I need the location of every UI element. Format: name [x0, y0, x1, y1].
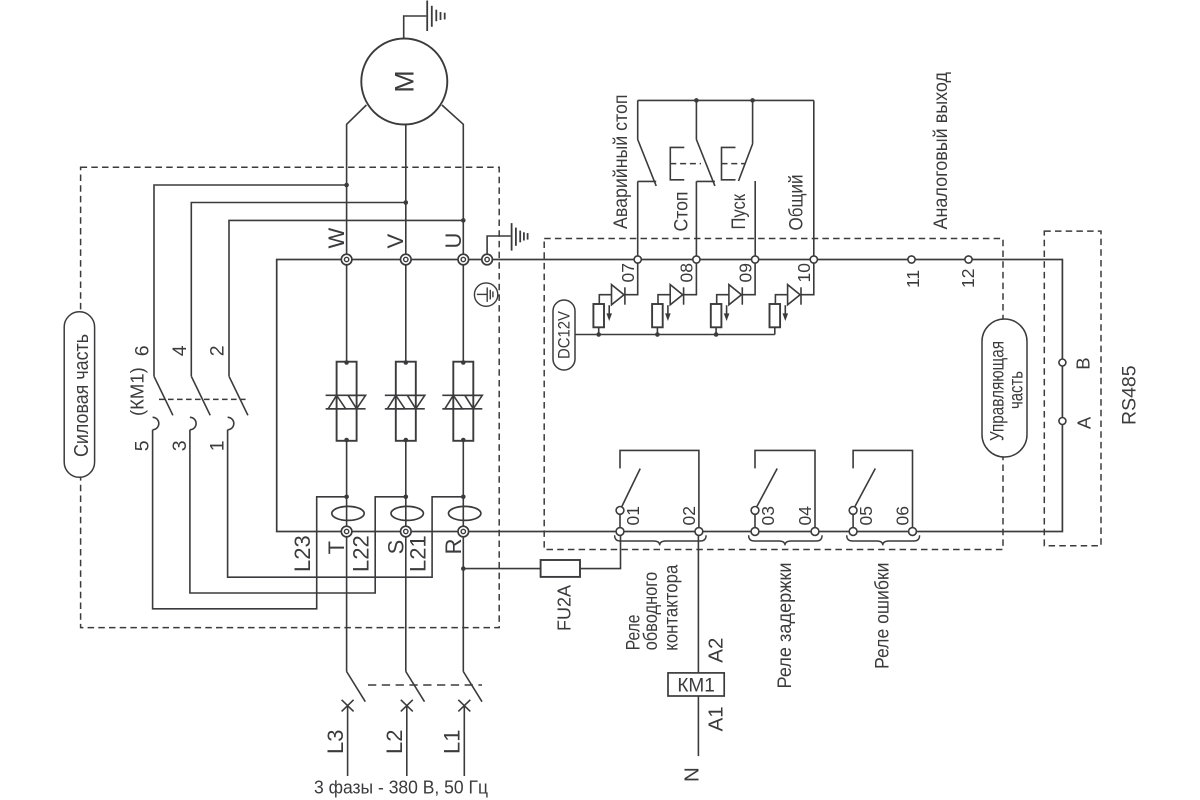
- terminal 01: [616, 528, 624, 536]
- svg-text:T: T: [324, 541, 349, 554]
- input channel 09: [711, 263, 756, 337]
- device body outline: [277, 260, 1063, 532]
- circuit breaker pole L2: [401, 532, 425, 777]
- svg-text:A: A: [1073, 416, 1094, 429]
- svg-text:Силовая часть: Силовая часть: [70, 334, 93, 457]
- terminal 10: [810, 256, 817, 263]
- svg-text:Управляющая: Управляющая: [988, 341, 1009, 441]
- svg-text:R: R: [441, 539, 466, 555]
- svg-text:A1: A1: [705, 706, 728, 731]
- wire: U terminal to thyristor: [462, 264, 464, 362]
- svg-text:L21: L21: [405, 535, 430, 572]
- terminal S: [383, 526, 411, 554]
- mechanical link of breaker: [368, 684, 482, 686]
- circuit breaker pole L1: [458, 532, 482, 777]
- wire: thyristor to S terminal: [405, 441, 407, 527]
- pushbutton: Аварийный стоп (NC): [611, 95, 656, 257]
- relay contact 01-02: [615, 450, 707, 650]
- svg-text:10: 10: [794, 263, 814, 283]
- terminal 09: [752, 256, 759, 263]
- ground (top, motor): [427, 1, 445, 32]
- svg-text:часть: часть: [1007, 371, 1028, 409]
- svg-text:L23: L23: [290, 535, 315, 572]
- stadium label: Силовая часть: [64, 312, 94, 478]
- terminal A: [1059, 416, 1094, 429]
- contactor KM1 pole A top wire: [154, 185, 347, 376]
- svg-text:02: 02: [679, 506, 699, 525]
- svg-text:09: 09: [735, 263, 755, 282]
- svg-text:12: 12: [958, 269, 978, 288]
- svg-text:КМ1: КМ1: [677, 674, 715, 696]
- svg-text:01: 01: [623, 506, 643, 525]
- terminal 05: [849, 528, 857, 536]
- svg-text:(КМ1): (КМ1): [127, 367, 148, 416]
- terminal 04: [811, 528, 819, 536]
- svg-text:M: M: [390, 70, 420, 93]
- svg-text:Пуск: Пуск: [729, 193, 750, 229]
- current transformer on T: [332, 506, 364, 520]
- wire: thyristor to R terminal: [462, 441, 464, 527]
- input channel 07: [593, 263, 638, 337]
- svg-text:2: 2: [207, 345, 229, 356]
- svg-text:Реле ошибки: Реле ошибки: [873, 563, 894, 670]
- control section dashed box: [544, 239, 1003, 550]
- input channel 10: [770, 263, 815, 335]
- svg-text:L1: L1: [440, 730, 465, 754]
- fuse FU2A: [461, 535, 621, 631]
- svg-text:V: V: [383, 234, 408, 249]
- circuit breaker pole L3: [342, 532, 366, 777]
- pushbutton: Пуск (NO): [722, 100, 756, 256]
- wire: motor to ground: [404, 16, 427, 39]
- svg-text:3 фазы - 380 В, 50 Гц: 3 фазы - 380 В, 50 Гц: [314, 777, 488, 798]
- wire: W terminal to thyristor: [346, 264, 348, 362]
- terminal 11: [903, 256, 923, 288]
- ground (PE terminal): [487, 223, 527, 254]
- svg-text:4: 4: [169, 345, 191, 356]
- terminal R: [441, 526, 469, 554]
- wire: V terminal to thyristor: [405, 264, 407, 362]
- wire: thyristor to T terminal: [346, 441, 348, 527]
- contactor KM1 pole B contact (3-4): [191, 376, 210, 415]
- thyristor module phase U: [442, 360, 482, 442]
- terminal 02: [695, 528, 703, 536]
- svg-text:5: 5: [132, 440, 154, 451]
- svg-text:L2: L2: [382, 730, 407, 754]
- current transformer on R: [449, 506, 481, 520]
- svg-text:контактора: контактора: [661, 564, 682, 650]
- svg-text:07: 07: [618, 263, 638, 282]
- contactor KM1 pole B bottom wire: [190, 430, 406, 593]
- DC12V bus: [575, 334, 775, 336]
- thyristor module phase W: [326, 360, 366, 442]
- power section dashed box: [81, 167, 500, 627]
- motor M1: [361, 39, 447, 125]
- svg-text:DC12V: DC12V: [555, 310, 574, 359]
- terminal W: [324, 228, 352, 265]
- node: junction on R branch: [461, 495, 466, 500]
- terminal 07: [634, 256, 641, 263]
- svg-text:04: 04: [795, 506, 815, 526]
- terminal 08: [693, 256, 700, 263]
- relay contact 05-06: [847, 450, 920, 669]
- earth circle symbol: [474, 283, 497, 306]
- svg-text:Аналоговый выход: Аналоговый выход: [931, 72, 952, 230]
- terminal 03: [751, 528, 759, 536]
- stadium label: DC12V: [553, 300, 575, 370]
- svg-text:1: 1: [207, 440, 229, 451]
- svg-text:11: 11: [903, 270, 923, 288]
- svg-text:6: 6: [132, 345, 154, 356]
- contactor KM1 pole B top wire: [191, 203, 405, 377]
- input channel 08: [652, 263, 697, 337]
- node: junction on W line: [344, 183, 349, 188]
- contactor KM1 pole A contact (5-6): [154, 376, 173, 415]
- svg-text:U: U: [441, 233, 466, 249]
- pushbutton: Стоп (NC): [670, 100, 715, 256]
- wire: motor lead to U: [442, 105, 463, 255]
- svg-text:3: 3: [169, 440, 191, 451]
- terminal 06: [909, 528, 917, 536]
- svg-text:N: N: [681, 767, 704, 782]
- node: junction on U line: [461, 218, 466, 223]
- wire: motor lead to W: [347, 105, 367, 255]
- stadium label: Управляющая часть: [982, 319, 1028, 457]
- terminal U: [441, 233, 469, 265]
- svg-text:L22: L22: [349, 535, 374, 572]
- wire: Общий: [787, 100, 814, 256]
- contactor KM1 pole C contact (1-2): [229, 376, 248, 415]
- mechanical link of KM1 contacts: [159, 398, 248, 400]
- svg-text:03: 03: [758, 506, 778, 525]
- svg-text:B: B: [1073, 357, 1094, 369]
- svg-text:Аварийный стоп: Аварийный стоп: [611, 95, 632, 230]
- contactor KM1 pole C top wire: [229, 220, 463, 376]
- current transformer on S: [391, 506, 423, 520]
- control input top bus: [638, 99, 814, 101]
- wire: motor lead to V: [405, 124, 407, 255]
- RS485 dashed box: [1044, 231, 1101, 546]
- contactor KM1 pole A bottom wire: [153, 430, 347, 609]
- svg-text:L3: L3: [323, 730, 348, 754]
- svg-text:Общий: Общий: [787, 175, 808, 231]
- thyristor module phase V: [385, 360, 425, 442]
- svg-text:06: 06: [893, 506, 913, 525]
- contactor coil KM1: [668, 535, 728, 782]
- relay contact 03-04: [749, 450, 823, 688]
- node: junction on V line: [404, 200, 409, 205]
- terminal PE: [482, 254, 493, 265]
- svg-text:05: 05: [856, 506, 876, 525]
- terminal B: [1059, 357, 1094, 369]
- svg-text:FU2A: FU2A: [555, 585, 575, 631]
- contactor KM1 pole C bottom wire: [228, 430, 464, 578]
- terminal V: [383, 234, 411, 265]
- svg-text:RS485: RS485: [1119, 365, 1141, 425]
- node: junction on S branch: [404, 495, 409, 500]
- svg-text:обводного: обводного: [641, 572, 662, 651]
- svg-text:08: 08: [677, 263, 697, 282]
- svg-text:Стоп: Стоп: [671, 192, 692, 232]
- node: junction on T branch: [344, 495, 349, 500]
- svg-text:Реле задержки: Реле задержки: [775, 563, 796, 689]
- terminal 12: [958, 256, 978, 288]
- svg-text:A2: A2: [705, 638, 728, 663]
- terminal T: [324, 526, 352, 554]
- svg-text:W: W: [324, 228, 349, 249]
